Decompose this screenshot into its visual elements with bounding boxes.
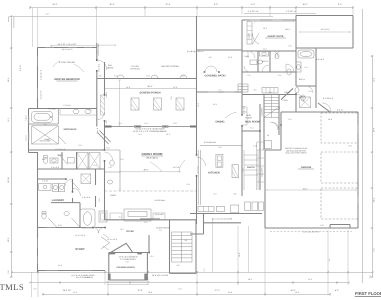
guest arcs [262, 51, 282, 72]
kitchen island [216, 154, 223, 167]
vanity wc [50, 158, 58, 163]
svg-text:TMLS: TMLS [0, 282, 24, 292]
svg-text:5'-0: 5'-0 [34, 288, 37, 291]
svg-text:MUD ROOM: MUD ROOM [245, 121, 260, 124]
svg-text:7'-6 1/2: 7'-6 1/2 [42, 180, 48, 183]
pantry shelves [244, 150, 258, 190]
svg-text:5'-0: 5'-0 [7, 271, 10, 274]
master tub [32, 111, 53, 122]
laundry door arc [65, 179, 72, 186]
svg-text:LOCKERS: LOCKERS [261, 107, 264, 116]
powder corner diagonal [98, 131, 111, 145]
svg-text:16'-0 x 8'-0: 16'-0 x 8'-0 [321, 28, 330, 31]
stair east wall [278, 95, 280, 136]
porch vertical dim [118, 80, 120, 126]
svg-text:5'-6: 5'-6 [242, 169, 245, 172]
svg-text:W.I.C.: W.I.C. [286, 28, 291, 31]
svg-text:18'-0 x 22'-4: 18'-0 x 22'-4 [146, 157, 158, 160]
guest closet door [252, 33, 259, 44]
study double door arcs [93, 228, 104, 234]
svg-text:COVERED PORCH: COVERED PORCH [116, 266, 135, 269]
svg-text:3'-0: 3'-0 [349, 145, 352, 148]
svg-text:24'-0 1/2" x 16'-4 1/2": 24'-0 1/2" x 16'-4 1/2" [58, 43, 77, 46]
svg-text:2'-10: 2'-10 [253, 145, 257, 148]
svg-text:COVERED PATIO: COVERED PATIO [204, 75, 225, 78]
svg-text:PWDR: PWDR [110, 194, 116, 197]
svg-text:4'-2: 4'-2 [328, 259, 331, 262]
svg-text:12'-0: 12'-0 [228, 56, 232, 59]
kitchen counters [198, 150, 200, 205]
svg-text:12'-2: 12'-2 [308, 278, 312, 281]
svg-text:12' CLG: 12' CLG [173, 166, 180, 169]
svg-text:FIRST FLOOR: FIRST FLOOR [355, 291, 381, 296]
foyer porch top wall [109, 235, 149, 253]
svg-text:4'-1: 4'-1 [151, 255, 154, 258]
mud room walls [242, 130, 260, 132]
svg-text:14'-2: 14'-2 [166, 133, 170, 136]
garage angled door corner [318, 103, 330, 112]
svg-text:15'-1: 15'-1 [213, 103, 217, 106]
laundry walls [38, 179, 81, 228]
garage top wall [281, 111, 358, 113]
svg-text:12'-4": 12'-4" [165, 3, 170, 6]
her closets hatch [77, 153, 88, 170]
svg-text:36'-0": 36'-0" [147, 85, 152, 88]
svg-text:3'-0: 3'-0 [321, 224, 324, 227]
dimension extension lines bottom [32, 219, 349, 297]
right dimension line [371, 55, 374, 278]
entry angled bay [111, 243, 133, 252]
kitchen north counter line [200, 145, 242, 147]
porch steps [106, 282, 150, 284]
bath2 walls [296, 48, 316, 112]
butler cabinets [198, 206, 214, 211]
svg-text:SEAL JUST THRU FINISH: SEAL JUST THRU FINISH [285, 152, 307, 155]
svg-text:11'-2: 11'-2 [263, 48, 267, 51]
hall arcs [244, 51, 278, 72]
garage west upper wall [265, 112, 281, 150]
svg-text:21'-4: 21'-4 [73, 291, 77, 294]
master shower [32, 126, 59, 144]
svg-text:3'-1: 3'-1 [305, 66, 308, 69]
bath2 vanity [296, 62, 301, 72]
svg-text:3'-4: 3'-4 [139, 133, 142, 136]
main stair [172, 232, 193, 262]
garage corner door arc [322, 103, 331, 112]
master east wall [96, 43, 98, 127]
svg-text:DINING: DINING [215, 121, 224, 124]
svg-text:LAUNDRY: LAUNDRY [52, 199, 65, 202]
svg-text:(5) 2'-8 x 6'-10 1/2 DOOR: (5) 2'-8 x 6'-10 1/2 DOOR [212, 218, 233, 221]
svg-text:11'-2": 11'-2" [251, 3, 256, 6]
svg-text:5'-4 x 6'-8: 5'-4 x 6'-8 [51, 166, 59, 169]
svg-text:6'-2: 6'-2 [145, 221, 148, 224]
hall interior wall x72.5 [72, 179, 74, 203]
svg-text:3'-6: 3'-6 [98, 199, 101, 202]
powder walls [281, 88, 293, 99]
hall bath tub [80, 209, 95, 228]
top dimension line [29, 6, 354, 9]
guest suite bottom wall [242, 50, 296, 52]
hall east wall [104, 62, 106, 127]
master vanity [60, 108, 97, 115]
bath2 shower [300, 97, 311, 108]
svg-text:5'-6: 5'-6 [248, 74, 251, 77]
svg-text:13'-2 1/2: 13'-2 1/2 [197, 167, 200, 174]
bath interior wall y150 [29, 149, 105, 151]
mudroom arc [272, 122, 279, 129]
garage apron dashed [270, 231, 352, 233]
svg-text:36'-0": 36'-0" [143, 169, 148, 172]
svg-text:SHWR: SHWR [44, 138, 50, 141]
svg-text:11'-6 1/2 x 8: 11'-6 1/2 x 8 [55, 148, 65, 151]
shower door diagonal [58, 136, 66, 144]
svg-text:9'-2: 9'-2 [289, 118, 292, 121]
back stairs [264, 95, 279, 118]
guest toilet2 [275, 53, 279, 59]
svg-text:6'-1: 6'-1 [251, 127, 254, 130]
family dim line [120, 171, 180, 173]
upper boundary line [9, 17, 273, 29]
svg-text:3'-0: 3'-0 [119, 122, 122, 125]
svg-text:3'-0: 3'-0 [269, 91, 272, 94]
svg-text:6'-0 TUB: 6'-0 TUB [48, 108, 56, 111]
svg-text:11'-4 x 12'-0: 11'-4 x 12'-0 [75, 234, 85, 237]
mud room bench [242, 107, 247, 125]
garage interior dim line [267, 189, 356, 191]
guest suite top wall [242, 19, 296, 21]
stair west wall [263, 95, 265, 151]
master dim line above [51, 45, 98, 47]
powder room [105, 150, 121, 191]
svg-text:SCULLERY: SCULLERY [260, 166, 263, 176]
window ticks [29, 20, 358, 270]
svg-text:5'-0 1/2: 5'-0 1/2 [19, 65, 22, 71]
misc door arcs [97, 60, 107, 70]
family room north wall w slide doors [105, 126, 197, 128]
guest bath fixtures [287, 69, 291, 75]
dining windows [140, 218, 160, 220]
family leaders [150, 160, 185, 172]
svg-text:2'-0 1/2 x 8: 2'-0 1/2 x 8 [40, 91, 43, 100]
svg-text:W 2'-0 TRANSOM: W 2'-0 TRANSOM [76, 276, 91, 279]
svg-text:9' TRAY CEILING: 9' TRAY CEILING [59, 61, 75, 64]
garage doors dashed [321, 113, 358, 219]
svg-text:W.C.: W.C. [42, 158, 46, 161]
svg-text:2'-6: 2'-6 [44, 123, 47, 126]
svg-text:SCREEN PORCH: SCREEN PORCH [140, 92, 161, 95]
svg-text:GARAGE: GARAGE [301, 166, 312, 169]
master bedroom top wall [38, 47, 97, 49]
svg-text:16'-4 1/2" x 8 THK: 16'-4 1/2" x 8 THK [152, 274, 169, 277]
svg-text:5'-0: 5'-0 [107, 147, 110, 150]
svg-text:(2) 2'-8 x 8'-0: (2) 2'-8 x 8'-0 [62, 48, 72, 51]
diagonal doors [48, 156, 79, 227]
svg-text:16'-2: 16'-2 [263, 27, 267, 30]
slide door dark panels [105, 126, 197, 128]
svg-text:1'-2 1/2" x 8: 1'-2 1/2" x 8 [286, 10, 297, 13]
svg-text:3'-6: 3'-6 [254, 89, 257, 92]
svg-text:5'-0: 5'-0 [309, 90, 312, 93]
svg-text:6'-2: 6'-2 [279, 74, 282, 77]
svg-text:4'-0: 4'-0 [219, 146, 222, 149]
svg-text:3'-0: 3'-0 [99, 75, 102, 78]
bottom dimension line 2 [29, 281, 350, 284]
svg-text:16'-0: 16'-0 [295, 291, 299, 294]
bath2 tub [298, 50, 314, 58]
svg-text:HALL: HALL [245, 55, 250, 58]
svg-text:9' ISLAND ABV: 9' ISLAND ABV [204, 141, 217, 144]
garage west wall [264, 150, 266, 228]
svg-text:4'-6: 4'-6 [209, 56, 212, 59]
svg-text:5'-0: 5'-0 [46, 13, 49, 16]
svg-text:5'-8: 5'-8 [174, 122, 177, 125]
master bath top wall [29, 108, 97, 110]
rear wall door swings [117, 75, 124, 79]
svg-text:2'-6 x 8: 2'-6 x 8 [96, 128, 99, 134]
dimension extension lines top [32, 8, 353, 47]
svg-text:18'-0: 18'-0 [148, 291, 152, 294]
svg-text:4'-2: 4'-2 [89, 109, 92, 112]
svg-text:2'-8 x 8'-0: 2'-8 x 8'-0 [98, 64, 101, 72]
svg-text:8'-4: 8'-4 [179, 288, 182, 291]
svg-text:MASTER BEDROOM: MASTER BEDROOM [54, 78, 79, 81]
svg-text:ROOM: ROOM [245, 117, 252, 120]
covered porch sides [109, 253, 148, 281]
svg-text:STOR: STOR [283, 99, 289, 102]
svg-text:4'-0": 4'-0" [335, 289, 339, 292]
svg-text:8'-1: 8'-1 [121, 228, 124, 231]
svg-text:LNDRY: LNDRY [299, 96, 306, 99]
patio door arcs [205, 66, 217, 72]
bath3 walls [258, 51, 270, 72]
hall bath sink [64, 212, 69, 216]
svg-text:PANTRY: PANTRY [247, 166, 256, 169]
svg-text:2'-2 1/2" x 8: 2'-2 1/2" x 8 [248, 10, 259, 13]
foyer closet diagonals [101, 237, 110, 249]
svg-text:48'-10: 48'-10 [7, 176, 10, 182]
svg-text:SLATE WALL: SLATE WALL [155, 199, 166, 202]
left dimension line [10, 15, 13, 278]
svg-text:8'-0: 8'-0 [373, 249, 376, 252]
garage bottom wall [265, 225, 358, 229]
svg-text:22'-8: 22'-8 [228, 291, 232, 294]
svg-text:6'-8: 6'-8 [187, 183, 190, 186]
svg-text:FAMILY ROOM: FAMILY ROOM [142, 152, 163, 156]
svg-text:2'-6: 2'-6 [109, 166, 112, 169]
svg-text:16'-0: 16'-0 [126, 86, 130, 89]
svg-text:4'-0 1/2: 4'-0 1/2 [337, 109, 343, 112]
hall wall x95.5 [95, 169, 97, 207]
west wall upper [37, 48, 39, 109]
svg-text:5'-8: 5'-8 [289, 45, 292, 48]
ac room [190, 214, 204, 235]
wc and closet band wall [38, 152, 105, 169]
garage east wall [357, 112, 359, 228]
svg-text:5'-2: 5'-2 [214, 193, 217, 196]
top right block [296, 16, 353, 49]
svg-text:W: W [267, 134, 269, 137]
covered patio steps wedge [238, 84, 248, 92]
dog shower [99, 211, 107, 222]
bottom dimension line 3 [42, 293, 331, 296]
svg-text:5'-6: 5'-6 [121, 158, 124, 161]
fireplace flanking cabinets [110, 213, 122, 220]
master bath west wall [29, 109, 38, 153]
svg-text:3'-6: 3'-6 [177, 264, 180, 267]
bottom dimension line 1 [11, 271, 374, 274]
svg-text:24'-2": 24'-2" [52, 3, 57, 6]
pantry east wall [259, 104, 261, 190]
deck left dim marks [99, 44, 116, 56]
svg-text:2'-0 SIDELIGHTS: 2'-0 SIDELIGHTS [120, 258, 136, 261]
west wall lower [37, 152, 39, 272]
master wc toilet [43, 158, 47, 164]
svg-text:(TYPICAL): (TYPICAL) [130, 68, 140, 71]
svg-text:16'-8: 16'-8 [238, 253, 241, 257]
porch columns [131, 98, 184, 110]
tub shower divider [29, 109, 59, 125]
porch right wall [196, 16, 198, 127]
kitchen dining east wall [241, 95, 243, 197]
svg-text:17'-2": 17'-2" [214, 289, 219, 292]
svg-text:7'-0: 7'-0 [126, 261, 129, 264]
svg-text:3'-11: 3'-11 [58, 224, 62, 227]
svg-text:12'-0: 12'-0 [373, 78, 376, 82]
svg-text:BATH 2: BATH 2 [299, 78, 305, 81]
svg-text:7'-2: 7'-2 [203, 269, 206, 272]
svg-text:7'-2: 7'-2 [159, 229, 162, 232]
stairs top wall [242, 94, 296, 96]
svg-text:KITCHEN: KITCHEN [208, 172, 220, 175]
mid closet hatch [81, 174, 91, 184]
right page border line [362, 9, 364, 283]
stoop below butler [204, 222, 241, 224]
dining leader [225, 112, 237, 118]
east rooms wall [315, 48, 317, 108]
svg-text:2'-8: 2'-8 [170, 97, 173, 100]
top right block inner dim [300, 31, 350, 33]
dining front wall [105, 219, 197, 221]
pantry shelf boxes [257, 142, 264, 190]
hall bath wall y72 [242, 71, 296, 73]
svg-text:5'-4 x 6'-8: 5'-4 x 6'-8 [82, 196, 90, 199]
guest bath sink2 [250, 60, 257, 65]
svg-text:STUDY: STUDY [75, 247, 85, 251]
svg-text:20'-2: 20'-2 [248, 278, 252, 281]
svg-text:12'-4: 12'-4 [58, 264, 62, 267]
title underline [355, 296, 381, 298]
porch piers [109, 252, 142, 254]
guest suite west wall [241, 20, 243, 94]
svg-text:7'-2: 7'-2 [219, 89, 222, 92]
fireplace [124, 209, 151, 221]
svg-text:4'-1: 4'-1 [119, 216, 122, 219]
study bottom wall [38, 270, 106, 272]
svg-text:2'-8: 2'-8 [278, 107, 281, 110]
patio corner dim marks [187, 50, 204, 52]
study top wall [38, 227, 105, 229]
svg-text:6'-0: 6'-0 [115, 75, 118, 78]
laundry washer dryer [52, 184, 58, 192]
family beam line [105, 190, 197, 192]
svg-text:9'-0: 9'-0 [234, 193, 237, 196]
svg-text:MSTR BATH: MSTR BATH [64, 128, 77, 131]
top right secondary dim line [244, 13, 316, 15]
svg-text:3'-0 x 8'-0: 3'-0 x 8'-0 [243, 106, 246, 114]
svg-text:4'-10 1/2 x 8: 4'-10 1/2 x 8 [40, 70, 43, 80]
linen boxes [67, 158, 74, 163]
family west wall [104, 127, 106, 220]
rear wall middle section [97, 78, 197, 80]
guest inner dim [254, 20, 294, 22]
svg-text:BATH 3: BATH 3 [262, 60, 268, 63]
svg-text:(2) 36 x 80: (2) 36 x 80 [155, 213, 164, 216]
svg-text:18'-4: 18'-4 [328, 118, 332, 121]
svg-text:16'-8": 16'-8" [109, 3, 114, 6]
svg-text:8'-0": 8'-0" [338, 3, 342, 6]
closet hatch hall [101, 95, 105, 115]
svg-text:12'-0: 12'-0 [173, 86, 177, 89]
svg-text:16'-0": 16'-0" [302, 3, 307, 6]
svg-text:11'-4 x 12'-0: 11'-4 x 12'-0 [107, 238, 117, 241]
svg-text:W.C.: W.C. [58, 154, 63, 157]
guest closet [247, 22, 252, 45]
door jamb marks [65, 59, 296, 253]
svg-text:6'-10 1/2: 6'-10 1/2 [64, 104, 71, 107]
svg-text:4'-0 1/2 x 8: 4'-0 1/2 x 8 [323, 97, 334, 100]
svg-text:24'-0 1/2": 24'-0 1/2" [63, 289, 72, 292]
label underlines [57, 38, 315, 169]
range counter [232, 165, 239, 178]
svg-text:2'-4: 2'-4 [94, 164, 97, 167]
stair hall walls [170, 220, 197, 273]
screen porch dim line [105, 88, 197, 90]
svg-text:W (2) 2'-8" x 2'-0" TRANSOM AB: W (2) 2'-8" x 2'-0" TRANSOM ABOVE [133, 130, 167, 133]
bath3 vanity [260, 52, 269, 57]
svg-text:6'-0: 6'-0 [182, 75, 185, 78]
svg-text:6'-0: 6'-0 [147, 75, 150, 78]
laundry counter [39, 184, 51, 191]
svg-text:12'-2 1/2 x 8'-0 THK: 12'-2 1/2 x 8'-0 THK [303, 231, 320, 234]
svg-text:5'-0: 5'-0 [79, 144, 82, 147]
bath2 toilet [295, 87, 299, 93]
svg-text:11'-1: 11'-1 [197, 103, 200, 107]
svg-text:8'-0 x 8'-0: 8'-0 x 8'-0 [316, 58, 324, 61]
tray ceiling arrow [53, 61, 84, 72]
svg-text:9'-0": 9'-0" [214, 3, 218, 6]
svg-text:FOYER: FOYER [126, 230, 134, 233]
svg-text:12'-8": 12'-8" [137, 289, 142, 292]
svg-text:36'-8": 36'-8" [303, 187, 308, 190]
svg-text:6'-4: 6'-4 [145, 122, 148, 125]
middle patio bottom wall / kitchen north [197, 50, 243, 92]
svg-text:GUEST SUITE: GUEST SUITE [268, 35, 284, 38]
lockers above stairs [262, 88, 278, 94]
svg-text:PWDR: PWDR [284, 91, 290, 94]
bev appliances [265, 141, 272, 149]
svg-text:ABOVE: ABOVE [107, 67, 115, 70]
svg-text:MASTER SCREEN: MASTER SCREEN [161, 65, 179, 68]
svg-text:21'-2: 21'-2 [7, 118, 10, 122]
butler front wall [190, 213, 262, 215]
family east wall [196, 127, 198, 225]
hall bath toilet [42, 213, 46, 219]
